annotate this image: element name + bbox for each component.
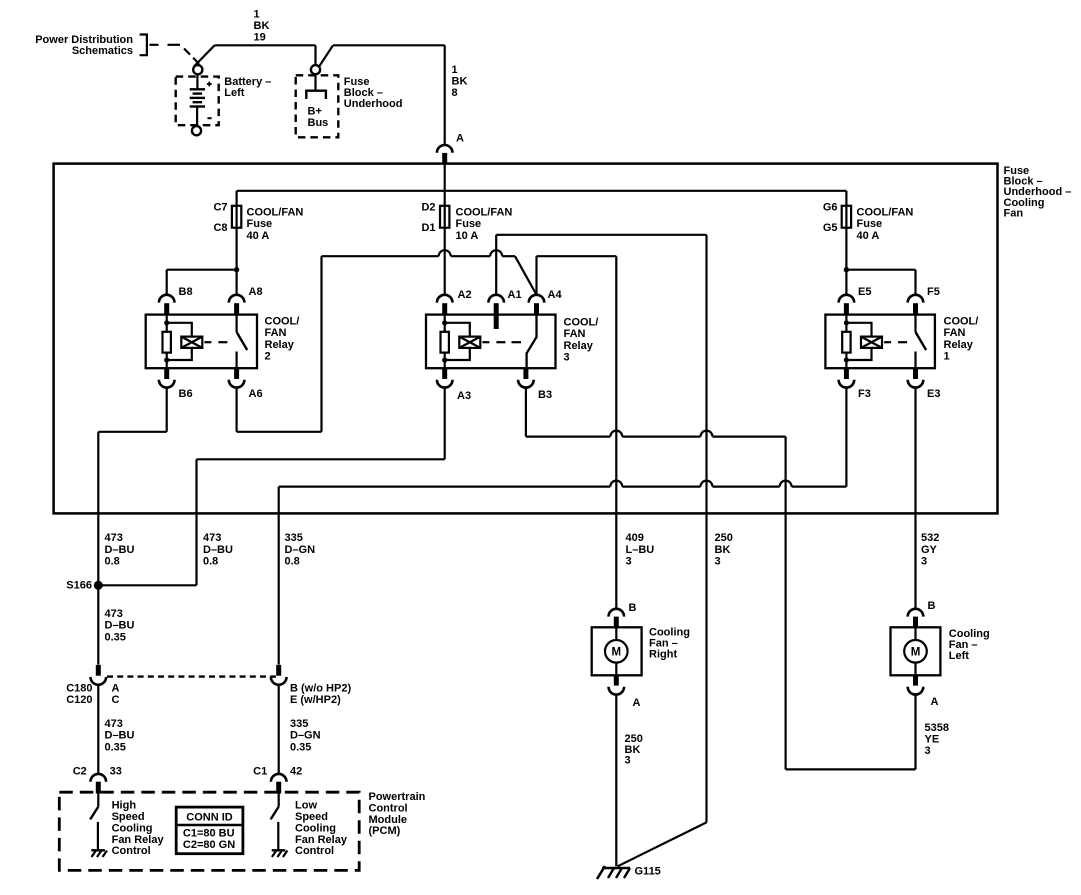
wire fuse G5 down to junction xyxy=(845,228,847,295)
svg-text:0.8: 0.8 xyxy=(105,556,120,568)
svg-text:A2: A2 xyxy=(458,289,472,301)
svg-text:42: 42 xyxy=(290,765,302,777)
svg-text:COOL/FAN: COOL/FAN xyxy=(247,206,304,218)
wire 250 BK diagonal to ground xyxy=(618,822,707,866)
svg-text:0.35: 0.35 xyxy=(290,741,311,753)
svg-text:3: 3 xyxy=(921,556,927,568)
wire hop F3-run over fan-left wire xyxy=(780,481,792,487)
wire hop F3-run over 250 wire xyxy=(701,481,713,487)
svg-text:M: M xyxy=(911,647,921,659)
svg-text:Control: Control xyxy=(295,845,334,857)
svg-text:0.35: 0.35 xyxy=(105,741,126,753)
svg-text:Cooling: Cooling xyxy=(295,822,336,834)
low speed fan relay control switch xyxy=(278,794,280,807)
svg-text:19: 19 xyxy=(254,32,266,44)
svg-text:D–GN: D–GN xyxy=(285,544,316,556)
relay U2 COOL/FAN Relay 2 box xyxy=(146,315,257,369)
relay1 pin F5 connector xyxy=(908,295,924,303)
svg-text:E (w/HP2): E (w/HP2) xyxy=(290,694,341,706)
svg-text:D2: D2 xyxy=(421,201,435,213)
relay2 pin A6 connector xyxy=(234,368,239,379)
svg-text:FAN: FAN xyxy=(944,327,966,339)
svg-text:Control: Control xyxy=(369,802,408,814)
wire relay3 A1 up and over to ground wire xyxy=(495,235,497,295)
svg-text:0.8: 0.8 xyxy=(203,556,218,568)
connector C180/C120 dashed line xyxy=(107,675,276,677)
wire 1 BK 19 horizontal xyxy=(215,44,316,46)
svg-text:F5: F5 xyxy=(927,286,940,298)
svg-text:A: A xyxy=(112,683,120,695)
svg-text:Relay: Relay xyxy=(944,339,974,351)
svg-text:2: 2 xyxy=(265,351,271,363)
svg-text:C8: C8 xyxy=(213,222,227,234)
svg-text:G5: G5 xyxy=(823,222,838,234)
svg-text:Fuse: Fuse xyxy=(247,218,273,230)
svg-text:33: 33 xyxy=(110,765,122,777)
svg-text:G6: G6 xyxy=(823,201,838,213)
wire B/E to C1 xyxy=(278,685,280,774)
svg-text:COOL/FAN: COOL/FAN xyxy=(456,206,513,218)
relay U3 COOL/FAN Relay 3 box xyxy=(426,315,556,369)
svg-text:A: A xyxy=(633,697,641,709)
relay2 pin A8 connector xyxy=(229,295,245,303)
fuse block - underhood box (dashed) xyxy=(296,75,339,137)
svg-text:Relay: Relay xyxy=(564,340,594,352)
bracket to power distribution schematics xyxy=(140,35,147,56)
wire 1 BK 8 horizontal xyxy=(333,44,445,46)
svg-text:D1: D1 xyxy=(421,222,435,234)
wire battery terminal to bus xyxy=(194,45,215,66)
svg-text:409: 409 xyxy=(626,532,644,544)
svg-text:Speed: Speed xyxy=(112,811,145,823)
svg-text:Right: Right xyxy=(649,649,677,661)
relay2 pin B8 connector xyxy=(159,295,175,303)
svg-text:532: 532 xyxy=(921,532,939,544)
connector C180/C120 pin A/C xyxy=(96,665,101,676)
svg-text:B (w/o HP2): B (w/o HP2) xyxy=(290,683,351,695)
relay3 coil and resistor xyxy=(444,315,446,332)
cooling fan left motor M2 xyxy=(891,627,941,675)
svg-text:1: 1 xyxy=(944,351,950,363)
svg-text:3: 3 xyxy=(625,754,631,766)
junction node at G5 output xyxy=(844,267,849,272)
svg-text:Powertrain: Powertrain xyxy=(369,791,426,803)
wire hop B3-run over 250 wire xyxy=(701,431,713,437)
battery minus sign xyxy=(207,117,211,119)
svg-text:C7: C7 xyxy=(213,201,227,213)
relay3 pin B3 connector xyxy=(523,368,528,379)
svg-text:250: 250 xyxy=(715,532,733,544)
svg-text:YE: YE xyxy=(925,733,940,745)
wire branch to relay1 F5 xyxy=(846,269,915,271)
wire splice link to A3 drop xyxy=(98,584,196,586)
svg-text:D–GN: D–GN xyxy=(290,730,321,742)
svg-text:3: 3 xyxy=(564,352,570,364)
svg-text:473: 473 xyxy=(105,608,123,620)
svg-text:A: A xyxy=(456,133,464,145)
svg-text:473: 473 xyxy=(203,532,221,544)
svg-text:B: B xyxy=(928,600,936,612)
battery negative terminal circle xyxy=(192,126,201,135)
connector C1 pin 42 xyxy=(271,774,287,782)
svg-text:BK: BK xyxy=(254,20,270,32)
ground G115 symbol xyxy=(597,866,605,879)
svg-text:0.8: 0.8 xyxy=(285,556,300,568)
cooling fan left pin A connector xyxy=(913,675,918,685)
svg-text:B8: B8 xyxy=(179,286,193,298)
svg-text:C2: C2 xyxy=(73,765,87,777)
wire feed into box xyxy=(444,163,446,206)
svg-text:C1: C1 xyxy=(253,765,267,777)
wire 1 BK 8 vertical xyxy=(444,45,446,145)
svg-text:Fan Relay: Fan Relay xyxy=(295,834,348,846)
svg-text:C: C xyxy=(112,694,120,706)
wire relay1 F3 to 335 D-GN xyxy=(845,388,847,487)
battery plus sign xyxy=(207,83,212,85)
svg-text:3: 3 xyxy=(715,556,721,568)
relay2 pin B6 connector xyxy=(164,368,169,379)
svg-text:D–BU: D–BU xyxy=(105,730,135,742)
wire feed drop to fuse G xyxy=(845,191,847,206)
svg-text:0.35: 0.35 xyxy=(105,631,126,643)
connector C2 pin 33 xyxy=(91,774,107,782)
svg-text:335: 335 xyxy=(290,718,308,730)
CONN ID table xyxy=(176,807,243,854)
wire relay3 A3 down-left 473 D-BU xyxy=(444,388,446,460)
svg-text:Relay: Relay xyxy=(265,339,295,351)
svg-text:(PCM): (PCM) xyxy=(369,825,401,837)
wire feed drop to fuse C xyxy=(236,191,238,206)
svg-text:E3: E3 xyxy=(927,388,940,400)
feed bus horizontal wire xyxy=(237,190,847,192)
ground symbol in PCM (low speed) xyxy=(272,849,286,851)
dashed link to battery xyxy=(168,44,181,46)
svg-text:Low: Low xyxy=(295,800,317,812)
svg-text:B+: B+ xyxy=(308,106,322,118)
svg-text:B6: B6 xyxy=(179,388,193,400)
wire S166 down to C180 xyxy=(97,585,99,664)
svg-text:FAN: FAN xyxy=(564,328,586,340)
connector C180/C120 pin B/E xyxy=(276,665,281,676)
ground symbol in PCM (high speed) xyxy=(91,849,105,851)
wire hop over A1 wire xyxy=(490,250,502,256)
wire relay2 B6 down-left 473 D-BU xyxy=(166,388,168,432)
wire fuse D1 down to relay3 A2 xyxy=(444,228,446,295)
wire hop F3-run over 409 wire xyxy=(610,481,622,487)
svg-text:GY: GY xyxy=(921,544,938,556)
svg-text:Bus: Bus xyxy=(308,117,329,129)
svg-text:Fuse: Fuse xyxy=(456,218,482,230)
svg-text:A8: A8 xyxy=(249,286,263,298)
svg-text:A: A xyxy=(931,696,939,708)
wire fuse C8 down to junction xyxy=(236,228,238,295)
B+ bus terminal circle xyxy=(311,65,320,74)
svg-text:D–BU: D–BU xyxy=(105,544,135,556)
svg-text:1: 1 xyxy=(452,64,458,76)
svg-text:L–BU: L–BU xyxy=(626,544,655,556)
wire drop to B+ bus tap xyxy=(314,45,316,65)
svg-text:D–BU: D–BU xyxy=(203,544,233,556)
wire branch to relay2 B8 xyxy=(167,269,237,271)
svg-text:335: 335 xyxy=(285,532,303,544)
junction node at C8 output xyxy=(234,267,239,272)
svg-text:F3: F3 xyxy=(858,388,871,400)
relay2 switch xyxy=(236,315,238,332)
svg-text:COOL/FAN: COOL/FAN xyxy=(857,206,914,218)
svg-text:COOL/: COOL/ xyxy=(265,316,300,328)
svg-text:A6: A6 xyxy=(249,388,263,400)
wire relay2 A6 to relay3 A4 run xyxy=(236,388,238,432)
svg-text:COOL/: COOL/ xyxy=(944,316,979,328)
wire B+ bus tap diagonal xyxy=(319,45,333,66)
relay U1 COOL/FAN Relay 1 box xyxy=(825,315,935,369)
svg-text:A3: A3 xyxy=(457,390,471,402)
svg-text:473: 473 xyxy=(105,532,123,544)
B+ bus bar symbol xyxy=(314,74,316,90)
battery - left box (dashed) xyxy=(176,77,219,126)
svg-text:A1: A1 xyxy=(508,289,522,301)
svg-text:S166: S166 xyxy=(66,580,92,592)
svg-text:10 A: 10 A xyxy=(456,230,479,242)
wire relay3 B3 to cooling fan left A xyxy=(525,388,527,437)
fuse D2/D1 COOL/FAN 10A symbol xyxy=(444,228,446,229)
svg-text:40 A: 40 A xyxy=(857,230,880,242)
svg-text:Underhood: Underhood xyxy=(344,98,403,110)
relay3 pin A1 connector xyxy=(488,295,504,303)
battery B1 cell symbol xyxy=(196,74,198,89)
svg-text:C180: C180 xyxy=(66,683,92,695)
splice S166 node xyxy=(94,581,103,590)
svg-text:Left: Left xyxy=(224,87,245,99)
relay3 switch xyxy=(527,315,537,368)
wire relay3 A4 up and over to fan right xyxy=(535,256,537,295)
svg-text:B: B xyxy=(629,602,637,614)
relay2 coil and resistor xyxy=(166,315,168,332)
svg-text:COOL/: COOL/ xyxy=(564,317,599,329)
relay1 coil and resistor xyxy=(845,315,847,332)
svg-text:C120: C120 xyxy=(66,694,92,706)
svg-text:3: 3 xyxy=(925,745,931,757)
svg-text:Fan: Fan xyxy=(1004,207,1024,219)
svg-text:B3: B3 xyxy=(538,389,552,401)
wire hop B3-run over 409 wire xyxy=(610,431,622,437)
cooling fan right pin B connector xyxy=(609,609,625,617)
relay3 pin A4 connector xyxy=(529,295,545,303)
wire C180 to C2 xyxy=(97,685,99,774)
wire fan right A to ground xyxy=(615,695,617,867)
svg-text:1: 1 xyxy=(254,8,260,20)
connector A (fuse block underhood) xyxy=(437,145,453,153)
svg-text:473: 473 xyxy=(105,718,123,730)
svg-text:CONN ID: CONN ID xyxy=(186,812,233,824)
svg-text:BK: BK xyxy=(452,76,468,88)
cooling fan right motor M1 xyxy=(592,627,642,675)
svg-text:Fuse: Fuse xyxy=(857,218,883,230)
relay1 switch xyxy=(914,315,916,332)
svg-text:C1=80 BU: C1=80 BU xyxy=(183,827,235,839)
svg-text:A4: A4 xyxy=(548,289,563,301)
svg-text:Speed: Speed xyxy=(295,811,328,823)
high speed fan relay control switch xyxy=(97,794,99,807)
powertrain control module box (dashed) xyxy=(59,792,359,870)
svg-text:40 A: 40 A xyxy=(247,230,270,242)
svg-text:G115: G115 xyxy=(635,866,661,878)
svg-text:Control: Control xyxy=(112,845,151,857)
svg-text:3: 3 xyxy=(626,556,632,568)
relay1 pin E3 connector xyxy=(913,368,918,379)
wire hop over A2 wire xyxy=(439,250,451,256)
svg-text:8: 8 xyxy=(452,87,458,99)
svg-text:High: High xyxy=(112,800,137,812)
svg-text:E5: E5 xyxy=(858,286,871,298)
cooling fan left pin B connector xyxy=(908,609,924,617)
relay3 pin A2 connector xyxy=(437,295,453,303)
fuse block - underhood - cooling fan outline box xyxy=(54,164,998,514)
relay3 pin A3 connector xyxy=(442,368,447,379)
svg-text:Fan Relay: Fan Relay xyxy=(112,834,165,846)
svg-text:5358: 5358 xyxy=(925,722,949,734)
svg-text:M: M xyxy=(612,647,622,659)
wire relay1 E3 down 532 GY xyxy=(914,388,916,609)
svg-text:Cooling: Cooling xyxy=(112,822,153,834)
svg-text:C2=80 GN: C2=80 GN xyxy=(183,839,235,851)
svg-text:Schematics: Schematics xyxy=(72,45,133,57)
svg-text:D–BU: D–BU xyxy=(105,620,135,632)
svg-text:Module: Module xyxy=(369,814,408,826)
svg-text:BK: BK xyxy=(715,544,731,556)
svg-text:Left: Left xyxy=(949,650,970,662)
relay1 pin E5 connector xyxy=(839,295,855,303)
fuse C7/C8 COOL/FAN 40A symbol xyxy=(236,206,238,228)
svg-text:FAN: FAN xyxy=(265,327,287,339)
relay1 pin F3 connector xyxy=(844,368,849,379)
battery positive terminal circle xyxy=(193,65,202,74)
fuse G6/G5 COOL/FAN 40A symbol xyxy=(845,206,847,228)
cooling fan right pin A connector xyxy=(614,675,619,685)
